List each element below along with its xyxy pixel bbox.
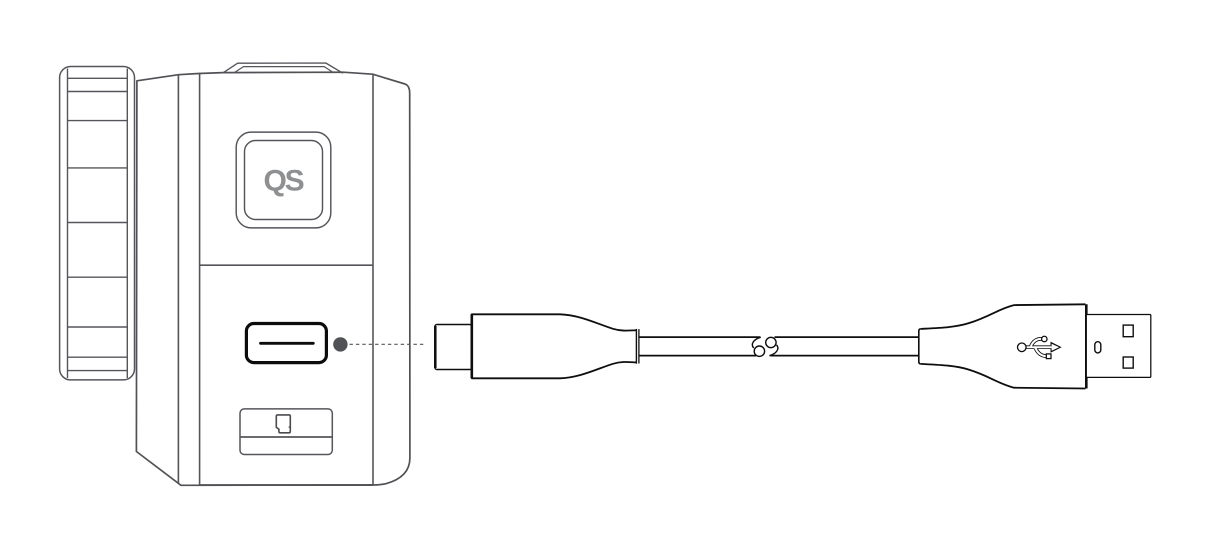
svg-text:QS: QS [264,164,304,197]
lens ring inner vertical right [126,69,128,379]
top bump outer [223,63,343,73]
USB-C plug body [472,314,637,378]
top bump inner line [234,67,334,73]
USB-A plug body bottom [921,364,1086,389]
indicator dot [333,337,347,351]
USB-C connector metal tip [435,325,472,370]
USB-C body left edge (bold) [470,314,473,378]
side panel divider [200,264,373,266]
cable segment right bottom [770,355,919,357]
USB-C port slot line [261,342,314,345]
USB trident logo [1018,336,1062,358]
USB-C port [246,324,326,363]
USB-A shell oval slot [1095,342,1101,353]
USB-C tip left edge (bold) [434,326,437,368]
cable segment left bottom [640,355,757,357]
USB-A shell upper hole [1123,325,1133,337]
QS button inner [245,141,323,220]
USB-C collar [635,329,637,364]
USB-A plug body top [921,304,1086,329]
microSD card icon [276,415,290,433]
USB-A metal shell [1086,315,1151,378]
lens ring rib lines [68,78,128,370]
front bottom edge (thicker) [200,484,373,486]
QS button outer [236,132,331,228]
USB-A body right edge (bold) [1085,304,1088,388]
USB-A shell lower hole [1123,357,1133,368]
camera body outline [136,72,410,485]
cable segment right top [775,336,919,338]
front edge strip line left [177,75,179,484]
cable break right hook [769,345,777,356]
cable break left hook [752,337,760,348]
lens ring inner vertical left [67,69,69,379]
microSD slot divider [240,436,332,438]
cable segment left top [640,336,761,338]
front edge strip line right [199,74,201,486]
lens ring outer [60,67,135,380]
dashed leader line [350,343,427,345]
microSD card notch tick [289,426,291,428]
USB-A plug collar [919,329,921,364]
microSD slot cover [240,409,332,455]
right inner vertical [372,74,374,485]
